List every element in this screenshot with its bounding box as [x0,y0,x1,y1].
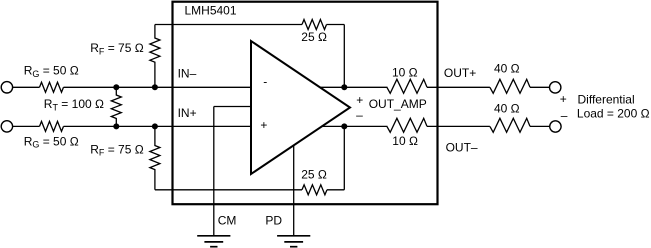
junction dot OUT+ / feedback [341,84,347,90]
wire: top feedback vertical drop [343,25,345,88]
svg-text:Differential: Differential [578,92,635,106]
junction dot OUT- / feedback [341,123,347,129]
input terminal circle IN+ [1,121,12,132]
wire: OUT- through box edge [427,125,490,127]
svg-text:–: – [561,108,568,122]
wire: OUT- from op-amp to 10 ohm [321,125,388,127]
svg-text:+: + [260,118,267,132]
resistor RG (top) = 50 ohm [40,82,64,92]
wire: to output terminal + [530,86,549,88]
resistor RG (bottom) = 50 ohm [40,121,64,131]
ground symbol (CM) [197,235,230,237]
resistor RF (bottom) = 75 ohm (vertical) [150,126,160,189]
svg-text:RG = 50 Ω: RG = 50 Ω [24,134,79,149]
svg-text:-: - [263,75,267,89]
wire: IN- input lead [13,86,40,88]
svg-text:40 Ω: 40 Ω [494,62,520,76]
wire: to output terminal - [530,125,549,127]
resistor 40 ohm (top) [490,79,530,93]
ground symbol (PD) [277,235,310,237]
resistor 10 ohm (bottom) [387,118,427,132]
svg-text:RG = 50 Ω: RG = 50 Ω [24,64,79,79]
wire: CM vertical to ground [213,107,215,236]
svg-text:OUT_AMP: OUT_AMP [369,97,427,111]
svg-text:IN–: IN– [178,67,197,81]
resistor 25 ohm (bottom feedback) [302,185,327,195]
svg-text:PD: PD [265,214,282,228]
svg-text:10 Ω: 10 Ω [392,66,418,80]
wire: OUT+ through box edge [427,86,490,88]
wire: bottom feedback to output node [327,189,344,191]
wire: IN+ input lead [13,125,40,127]
wire: bottom feedback horizontal [155,189,302,191]
svg-text:–: – [356,108,363,122]
resistor RF (top) = 75 ohm (vertical) [150,25,160,88]
output terminal circle + [550,82,561,93]
wire: CM stub to op-amp [214,106,251,108]
wire: bottom feedback vertical rise [343,126,345,189]
wire: PD vertical to ground [293,146,295,236]
resistor 10 ohm (top) [387,79,427,93]
svg-text:+: + [560,92,567,106]
svg-text:25 Ω: 25 Ω [301,30,327,44]
junction dot IN+ / RF [152,123,158,129]
svg-text:RT = 100 Ω: RT = 100 Ω [44,97,104,112]
svg-text:CM: CM [218,214,237,228]
junction dot IN- / RT [113,84,119,90]
svg-text:RF = 75 Ω: RF = 75 Ω [90,142,144,157]
svg-text:+: + [356,93,363,107]
LMH5401 box [173,2,438,205]
resistor 25 ohm (top feedback) [302,20,327,30]
svg-text:IN+: IN+ [178,106,197,120]
resistor RT = 100 ohm (vertical) [111,87,121,126]
wire: top feedback horizontal [155,24,302,26]
wire: IN+ rail from RG to op-amp [64,125,252,127]
svg-text:LMH5401: LMH5401 [185,4,237,18]
wire: top feedback to output node [327,24,345,26]
junction dot IN+ / RT [113,123,119,129]
wire: OUT+ from op-amp to 10 ohm [320,86,388,88]
svg-text:25 Ω: 25 Ω [301,168,327,182]
output terminal circle - [550,121,561,132]
op-amp U1 triangle [251,41,350,174]
svg-text:OUT+: OUT+ [444,66,476,80]
svg-text:40 Ω: 40 Ω [494,102,520,116]
svg-text:OUT–: OUT– [446,141,478,155]
junction dot IN- / RF [152,84,158,90]
svg-text:Load = 200 Ω: Load = 200 Ω [577,107,650,121]
wire: IN- rail from RG to op-amp [64,86,252,88]
svg-text:RF = 75 Ω: RF = 75 Ω [90,41,144,56]
svg-text:10 Ω: 10 Ω [392,134,418,148]
input terminal circle IN- [1,82,12,93]
resistor 40 ohm (bottom) [490,118,530,132]
